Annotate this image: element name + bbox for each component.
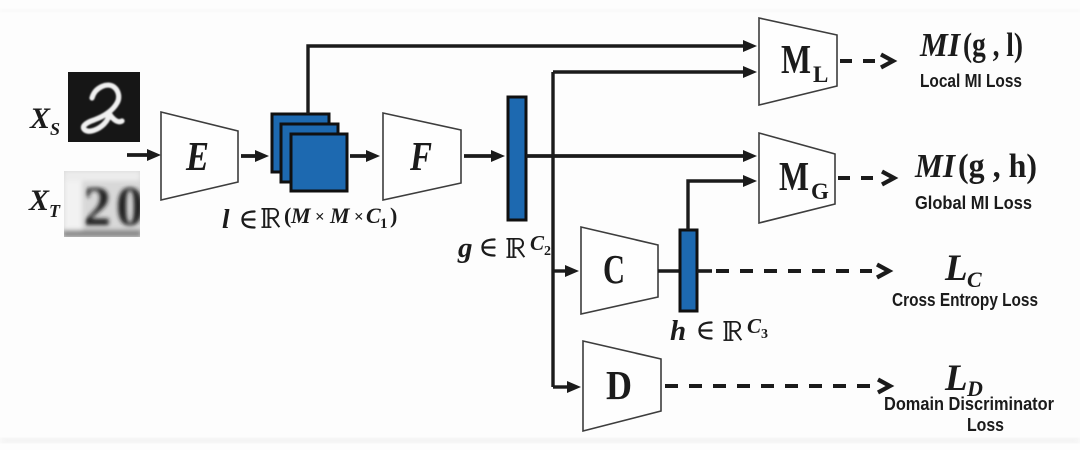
- faint top streak: [0, 9, 1080, 12]
- svg-text:C: C: [530, 231, 545, 255]
- svg-text:G: G: [811, 179, 829, 204]
- svg-text:C: C: [747, 314, 762, 338]
- label l ∈ R^(MxMxC1): [222, 203, 397, 234]
- label MI(g,h): [914, 148, 1037, 185]
- wire X to E: [127, 153, 149, 157]
- svg-text:Loss: Loss: [967, 415, 1004, 435]
- wire F to g: [464, 154, 492, 158]
- svg-text:C: C: [967, 267, 982, 292]
- svg-text:M: M: [781, 36, 811, 82]
- feature vector h (bar): [680, 230, 697, 311]
- svg-text:g: g: [457, 232, 473, 264]
- wire g to M_G: [526, 154, 744, 158]
- svg-text:D: D: [606, 362, 632, 408]
- svg-text:Domain Discriminator: Domain Discriminator: [884, 394, 1054, 414]
- local MI estimator M_L: [759, 18, 837, 105]
- svg-text:S: S: [50, 119, 60, 139]
- svg-text:T: T: [49, 201, 61, 221]
- svg-text:2: 2: [544, 244, 551, 259]
- feature vector g (bar): [508, 97, 526, 220]
- svg-text:E: E: [185, 133, 209, 179]
- dashed wire M_G to MI(g,h): [838, 176, 880, 180]
- feature maps l (stacked): [272, 114, 347, 191]
- svg-text:L: L: [944, 248, 968, 289]
- svg-text:L: L: [944, 358, 968, 399]
- svg-text:X: X: [29, 102, 51, 135]
- svg-text:L: L: [813, 62, 828, 87]
- label MI(g,l): [919, 27, 1023, 64]
- network F: [383, 113, 461, 200]
- label g ∈ R^C2: [457, 231, 551, 264]
- domain discriminator D: [583, 341, 661, 431]
- svg-text:Global MI Loss: Global MI Loss: [915, 193, 1032, 213]
- svg-text:×: ×: [315, 207, 325, 226]
- svg-text:F: F: [409, 133, 432, 179]
- svg-text:(g , h): (g , h): [958, 148, 1037, 185]
- svg-text:Cross Entropy Loss: Cross Entropy Loss: [892, 290, 1038, 310]
- svg-text:M: M: [290, 203, 312, 228]
- classifier C: [581, 227, 658, 314]
- label L_C: [944, 248, 982, 292]
- wire to C: [553, 269, 567, 272]
- wire C to h: [658, 269, 680, 272]
- input image X_T (blurry digits 20): [63, 171, 144, 238]
- label h ∈ R^C3: [670, 314, 768, 347]
- svg-text:0: 0: [116, 176, 144, 238]
- svg-text:C: C: [603, 246, 625, 292]
- input image X_S (MNIST digit 2): [68, 72, 140, 142]
- svg-text:MI: MI: [914, 148, 957, 185]
- svg-text:X: X: [28, 184, 50, 217]
- wire up to M_L (second input): [553, 70, 744, 73]
- svg-text:): ): [390, 203, 397, 228]
- global MI estimator M_G: [759, 133, 835, 223]
- svg-text:l: l: [222, 204, 230, 234]
- svg-text:C: C: [366, 203, 381, 228]
- svg-text:h: h: [670, 315, 686, 347]
- wire to D: [553, 385, 568, 388]
- svg-text:(g , l): (g , l): [963, 27, 1023, 64]
- svg-text:3: 3: [761, 327, 768, 342]
- svg-text:Local MI Loss: Local MI Loss: [920, 71, 1022, 91]
- dashed wire h to L_C: [697, 269, 712, 273]
- junction vertical wire: [551, 72, 554, 387]
- dashed wire D to L_D: [665, 384, 874, 388]
- svg-text:2: 2: [83, 176, 111, 238]
- wire h up to M_G (second input): [688, 181, 744, 230]
- dashed wire M_L to MI(g,l): [840, 59, 879, 63]
- svg-text:M: M: [329, 203, 351, 228]
- svg-text:×: ×: [354, 207, 364, 226]
- svg-text:M: M: [779, 153, 809, 199]
- faint bottom streak: [0, 438, 1080, 443]
- encoder E: [161, 112, 238, 200]
- label L_D: [944, 358, 983, 401]
- wire l up to M_L: [308, 46, 744, 114]
- wire E to l: [241, 154, 257, 158]
- svg-text:MI: MI: [919, 27, 962, 64]
- wire l to F: [350, 154, 368, 158]
- svg-text:1: 1: [380, 216, 388, 232]
